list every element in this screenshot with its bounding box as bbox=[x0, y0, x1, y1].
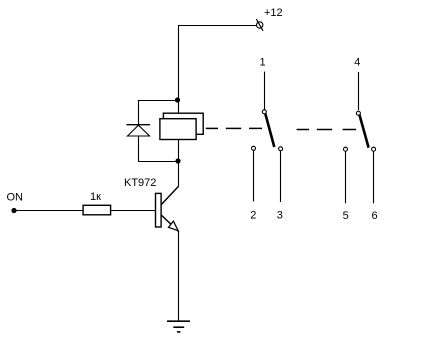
svg-text:4: 4 bbox=[354, 57, 360, 69]
svg-text:3: 3 bbox=[277, 210, 283, 222]
svg-text:ON: ON bbox=[7, 192, 24, 204]
svg-text:2: 2 bbox=[250, 210, 256, 222]
svg-text:6: 6 bbox=[372, 210, 378, 222]
svg-text:KT972: KT972 bbox=[124, 177, 156, 189]
svg-text:1к: 1к bbox=[90, 191, 101, 203]
svg-text:+12: +12 bbox=[264, 7, 283, 19]
svg-text:5: 5 bbox=[343, 210, 349, 222]
svg-text:1: 1 bbox=[259, 57, 265, 69]
